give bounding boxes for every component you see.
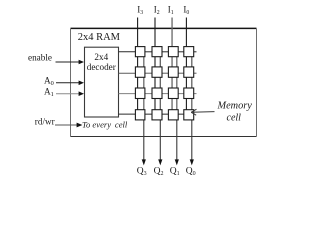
wire output line Q1 (column 3 data-out) [175, 57, 179, 166]
wire rd/wr arrow [55, 123, 82, 128]
label A0 [44, 76, 54, 88]
label I2 [154, 4, 160, 16]
wire A0 arrow [56, 81, 84, 86]
memory cell row1 col2 [152, 47, 162, 57]
label A1 [44, 86, 54, 98]
label Q3 [137, 167, 147, 178]
label Q2 [154, 167, 164, 178]
label Q0 [186, 167, 196, 178]
wire input line I1 (column 3 data-in) [171, 18, 173, 110]
wire word line row 1 (decoder output 0) [119, 51, 197, 53]
svg-text:cell: cell [227, 113, 242, 124]
label enable [28, 53, 52, 63]
memory cell row2 col4 [184, 67, 194, 77]
label I1 [168, 4, 174, 16]
wire A1 arrow [56, 91, 84, 96]
wire output line Q2 (column 2 data-out) [158, 57, 162, 166]
wire word line row 2 (decoder output 1) [119, 72, 197, 74]
memory cell row3 col2 [152, 88, 162, 99]
svg-text:2x4 RAM: 2x4 RAM [78, 32, 121, 43]
svg-text:Memory: Memory [217, 101, 253, 112]
label To every cell [82, 119, 128, 129]
wire enable arrow [56, 60, 85, 65]
label rd/wr [35, 116, 55, 126]
wire input line I2 (column 2 data-in) [154, 18, 156, 110]
wire output line Q3 (column 1 data-out) [142, 57, 146, 166]
svg-text:enable: enable [28, 53, 52, 63]
memory cell row4 col2 [152, 110, 162, 120]
svg-text:decoder: decoder [87, 62, 116, 72]
svg-text:2x4: 2x4 [94, 52, 108, 62]
memory cell row2 col2 [152, 67, 162, 77]
label I0 [183, 4, 189, 16]
memory cell row3 col3 [168, 88, 178, 99]
svg-text:To every cell: To every cell [82, 119, 128, 129]
svg-text:rd/wr: rd/wr [35, 116, 55, 126]
label I3 [137, 4, 143, 16]
memory cell row4 col4 [184, 110, 194, 120]
memory cell row4 col1 [135, 110, 145, 120]
memory cell row3 col4 [184, 88, 194, 99]
label 2x4 RAM [78, 32, 121, 43]
memory cell row2 col1 [135, 67, 145, 77]
label Memory cell [217, 101, 253, 124]
wire word line row 3 (decoder output 2) [119, 93, 197, 95]
wire output line Q0 (column 4 data-out) [190, 57, 194, 166]
memory cell row2 col3 [168, 67, 178, 77]
decoder label [87, 52, 116, 72]
memory cell row4 col3 [168, 110, 178, 120]
memory cell row1 col4 [184, 47, 194, 57]
decoder U1 box [85, 47, 119, 117]
RAM outer box [71, 28, 257, 136]
wire word line row 4 (decoder output 3) [119, 113, 184, 115]
memory cell annotation arrow [191, 109, 214, 115]
memory cell row1 col1 [135, 47, 145, 57]
wire input line I3 (column 1 data-in) [137, 18, 139, 110]
label Q1 [170, 167, 180, 178]
memory cell row1 col3 [168, 47, 178, 57]
wire input line I0 (column 4 data-in) [185, 18, 187, 110]
memory cell row3 col1 [135, 88, 145, 99]
